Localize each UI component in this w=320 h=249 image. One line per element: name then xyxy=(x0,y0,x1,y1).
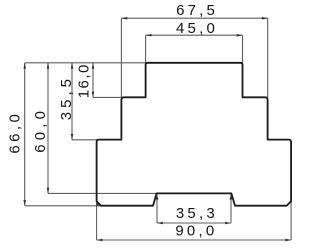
enclosure profile outline xyxy=(97,63,292,206)
extension line 90.0 left xyxy=(96,199,98,240)
dimension line 16.0 vertical xyxy=(92,63,94,98)
arrow 35.3 left xyxy=(157,222,163,225)
extension line: top face leftwards xyxy=(25,62,146,64)
extension line 90.0 right xyxy=(290,199,292,240)
arrow 16.0 top xyxy=(92,63,95,69)
svg-text:90,0: 90,0 xyxy=(175,222,217,239)
svg-text:35,5: 35,5 xyxy=(58,75,75,120)
svg-text:66,0: 66,0 xyxy=(6,111,23,154)
arrow 90.0 left xyxy=(97,239,103,242)
arrow 16.0 bottom xyxy=(92,92,95,98)
svg-text:67,5: 67,5 xyxy=(176,2,218,19)
arrow 66.0 bottom xyxy=(23,200,26,206)
extension line 67.5 left xyxy=(120,18,122,97)
dimension line 67.5 horizontal xyxy=(121,17,267,19)
extension line: 60.0 rail plane level xyxy=(48,192,157,194)
extension line: 35.5 step level xyxy=(72,139,98,141)
svg-text:16,0: 16,0 xyxy=(76,63,93,98)
extension line 35.3 right xyxy=(230,194,232,223)
extension line: 16.0 step level xyxy=(93,96,121,98)
arrow 45.0 left xyxy=(146,34,152,37)
svg-text:45,0: 45,0 xyxy=(176,20,218,37)
arrow 60.0 top xyxy=(47,63,50,69)
chamfer fill bottom-left xyxy=(97,202,101,206)
arrow 35.5 bottom xyxy=(71,134,74,140)
arrow 90.0 right xyxy=(285,239,291,242)
arrow 35.5 top xyxy=(71,63,74,69)
svg-text:35,3: 35,3 xyxy=(176,205,218,222)
arrow 67.5 right xyxy=(262,17,268,20)
extension line 35.3 left xyxy=(156,194,158,223)
svg-text:60,0: 60,0 xyxy=(32,107,49,153)
arrow 67.5 left xyxy=(121,17,127,20)
dimension line 90.0 horizontal xyxy=(97,239,292,241)
arrowheads xyxy=(23,17,291,241)
notch corner mark left xyxy=(155,194,159,199)
dimension line 45.0 horizontal xyxy=(146,34,243,36)
arrow 66.0 top xyxy=(23,63,26,69)
extension line: 66.0 bottom level xyxy=(25,205,101,207)
dimension line 66.0 vertical xyxy=(24,63,26,206)
extension line 67.5 right xyxy=(267,18,269,97)
arrow 45.0 right xyxy=(237,34,243,37)
extension line 45.0 left xyxy=(145,35,147,63)
dimension line 60.0 vertical xyxy=(47,63,49,194)
dimension line 35.5 vertical xyxy=(71,63,73,140)
notch corner mark right xyxy=(229,194,233,199)
extension line 45.0 right xyxy=(242,35,244,63)
arrow 35.3 right xyxy=(225,222,231,225)
dimension line 35.3 horizontal xyxy=(157,222,231,224)
arrow 60.0 bottom xyxy=(47,188,50,194)
